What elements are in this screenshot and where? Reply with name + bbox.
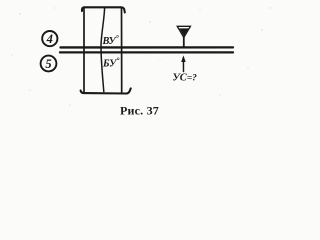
svg-text:5: 5: [45, 57, 51, 71]
svg-text:Рис. 37: Рис. 37: [120, 104, 159, 118]
svg-text:УС=?: УС=?: [173, 73, 198, 84]
svg-text:4: 4: [46, 32, 53, 46]
